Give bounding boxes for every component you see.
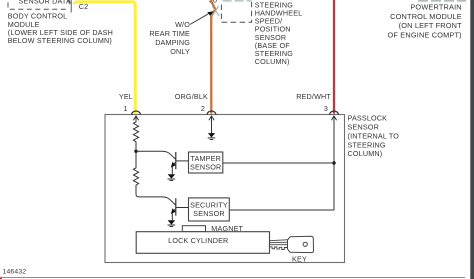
svg-text:SENSOR: SENSOR: [348, 123, 379, 132]
svg-text:(ON LEFT FRONT: (ON LEFT FRONT: [399, 21, 463, 30]
wire RED/WHT: [333, 0, 335, 114]
svg-text:COLUMN): COLUMN): [255, 57, 290, 66]
svg-text:DAMPING: DAMPING: [155, 38, 190, 47]
svg-text:STEERING: STEERING: [348, 140, 386, 149]
svg-text:(INTERNAL TO: (INTERNAL TO: [348, 131, 400, 140]
svg-text:146432: 146432: [3, 268, 27, 275]
svg-text:YEL: YEL: [119, 92, 133, 101]
key blade: [270, 240, 289, 250]
junction node A: [134, 150, 137, 153]
svg-text:SENSOR DATA: SENSOR DATA: [19, 0, 71, 5]
connector C2 pin line: [70, 0, 72, 13]
wire YEL: [74, 2, 135, 114]
right window edge bar: [470, 0, 474, 279]
bottom separator line: [0, 277, 465, 279]
pin 2 connector bump: [207, 111, 216, 115]
wire YEL (halo): [74, 2, 135, 114]
svg-text:ORG/BLK: ORG/BLK: [175, 92, 208, 101]
passlock sensor box: [105, 115, 345, 263]
svg-text:SECURITY: SECURITY: [190, 200, 228, 209]
magnet rectangle: [182, 226, 205, 232]
pin 3 internal arrow: [331, 116, 336, 210]
ground (Q2): [168, 220, 176, 226]
pin 2 internal arrow: [209, 116, 214, 134]
transistor Q2 emitter: [172, 209, 176, 213]
svg-text:3: 3: [324, 104, 328, 113]
svg-text:RED/WHT: RED/WHT: [296, 92, 331, 101]
svg-text:LOCK CYLINDER: LOCK CYLINDER: [168, 236, 228, 245]
steering handwheel sensor dashed box (partially cut at top): [223, 0, 252, 2]
resistor R2: [133, 151, 138, 194]
svg-text:KEY: KEY: [292, 254, 307, 263]
wire (tamper sensor to node B): [223, 162, 334, 164]
transistor Q1 emitter: [172, 162, 176, 166]
svg-text:SENSOR: SENSOR: [190, 163, 221, 172]
ground (Q1): [168, 174, 176, 180]
svg-text:BELOW STEERING COLUMN): BELOW STEERING COLUMN): [8, 36, 112, 45]
red corner tick: [0, 277, 2, 279]
svg-text:PASSLOCK: PASSLOCK: [348, 114, 388, 123]
key hole: [303, 242, 307, 246]
junction node B: [332, 161, 335, 164]
resistor R1: [133, 121, 138, 151]
svg-text:POWERTRAIN: POWERTRAIN: [410, 3, 461, 12]
svg-text:ONLY: ONLY: [170, 47, 190, 56]
pin 1 internal arrow: [133, 116, 138, 122]
transistor Q2 base line: [176, 207, 188, 209]
pin 1 connector bump: [132, 111, 141, 115]
powertrain dashed line (cut-off box at top right): [418, 0, 466, 2]
svg-text:SENSOR: SENSOR: [193, 209, 224, 218]
wire (pin3 down to security sensor): [230, 209, 334, 211]
transistor Q2 bar: [175, 198, 177, 215]
transistor Q1 bar: [175, 152, 177, 169]
svg-text:1: 1: [123, 104, 127, 113]
wire ORG/BLK (with option break jog): [211, 0, 216, 114]
ground (pin 2): [208, 133, 216, 139]
svg-text:W/O: W/O: [175, 20, 190, 29]
transistor Q1 collector wire: [136, 151, 176, 159]
security sensor box: [189, 198, 230, 221]
svg-text:CONTROL MODULE: CONTROL MODULE: [390, 12, 462, 21]
svg-text:2: 2: [201, 104, 205, 113]
svg-text:REAR TIME: REAR TIME: [149, 29, 190, 38]
key head: [288, 236, 314, 252]
option break X symbol: [212, 6, 219, 16]
pin 3 connector bump: [330, 111, 339, 115]
callout arrow (w/o rear time damping): [190, 14, 208, 25]
transistor Q1 base line: [176, 160, 188, 162]
tamper sensor box: [189, 152, 223, 173]
transistor Q2 collector wire: [136, 194, 176, 205]
lock cylinder box: [136, 232, 269, 254]
connector C2 dashed box (body control module, partially cut at top): [8, 3, 67, 10]
svg-text:TAMPER: TAMPER: [190, 154, 221, 163]
svg-text:OF ENGINE COMPT): OF ENGINE COMPT): [388, 31, 462, 40]
svg-text:COLUMN): COLUMN): [348, 149, 383, 158]
